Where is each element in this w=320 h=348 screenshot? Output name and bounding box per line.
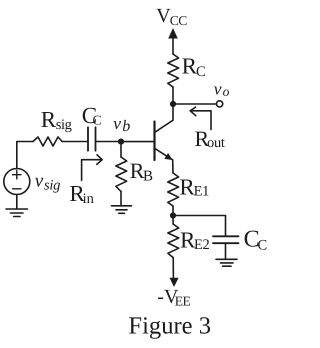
label RE1 — [179, 174, 209, 199]
svg-text:C: C — [196, 64, 206, 80]
svg-text:v: v — [214, 78, 222, 98]
svg-text:Figure 3: Figure 3 — [128, 313, 211, 340]
label vo — [214, 78, 230, 99]
transistor Q1 base bar — [153, 122, 155, 161]
svg-text:b: b — [122, 118, 130, 135]
wire vb to RB — [120, 142, 122, 158]
source vsig circle — [4, 169, 30, 195]
node vb junction — [118, 139, 124, 145]
node collector junction — [170, 101, 176, 107]
label CC coupling — [82, 103, 102, 128]
transistor Q1 collector lead — [155, 104, 173, 132]
wire RE1 to emitter node — [172, 206, 174, 216]
resistor RC — [168, 54, 179, 87]
svg-text:out: out — [207, 135, 225, 151]
ground RB — [112, 206, 132, 214]
resistor RB — [116, 157, 127, 192]
caption Figure 3 — [128, 313, 211, 340]
wire base — [121, 141, 154, 143]
svg-text:E1: E1 — [194, 184, 210, 200]
wire node to RE2 — [172, 216, 174, 225]
svg-text:v: v — [113, 113, 121, 133]
resistor RE2 — [168, 224, 179, 258]
transistor Q1 emitter arrowhead — [164, 153, 172, 160]
svg-text:EE: EE — [175, 293, 191, 308]
wire collector node to vo terminal — [173, 103, 216, 105]
label RB — [130, 158, 153, 185]
resistor RE1 — [168, 173, 179, 206]
wire node to bypass cap — [173, 216, 226, 237]
transistor Q1 emitter lead — [155, 148, 173, 173]
label vsig — [35, 170, 60, 193]
label vb — [113, 113, 130, 135]
wire RC to collector node — [172, 87, 174, 104]
source minus sign — [13, 188, 21, 190]
wire source to ground — [16, 195, 18, 210]
source plus sign — [13, 171, 21, 179]
node vo open terminal — [217, 101, 223, 107]
label RC — [182, 53, 206, 80]
svg-text:E2: E2 — [194, 237, 210, 253]
svg-text:CC: CC — [170, 13, 188, 28]
wire VCC arrow up — [168, 28, 178, 54]
resistor Rsig — [33, 137, 62, 146]
capacitor CC coupling plates — [88, 127, 96, 150]
svg-text:v: v — [35, 170, 44, 191]
label -VEE — [157, 286, 190, 308]
capacitor CC bypass plates — [213, 236, 239, 243]
ground vsig — [6, 209, 28, 217]
svg-text:sig: sig — [56, 117, 72, 133]
svg-text:C: C — [258, 238, 268, 254]
svg-text:in: in — [83, 191, 95, 207]
arrow Rin pointer — [82, 155, 103, 181]
label Rout — [195, 126, 225, 151]
wire source to rsig — [17, 142, 33, 169]
wire RB to ground — [120, 192, 122, 206]
ground bypass — [216, 259, 237, 266]
label Rin — [69, 181, 94, 207]
svg-text:sig: sig — [44, 177, 60, 193]
label RE2 — [180, 227, 210, 252]
svg-text:o: o — [223, 84, 230, 99]
wire RE2 to VEE arrow — [172, 258, 174, 279]
svg-text:B: B — [143, 169, 153, 185]
label CC bypass — [244, 227, 268, 254]
arrow Rout pointer — [190, 107, 211, 129]
wire rsig to cap — [62, 141, 88, 143]
svg-text:R: R — [41, 107, 57, 132]
wire cap to vb — [96, 141, 122, 143]
wire cap to ground — [225, 243, 227, 259]
svg-text:C: C — [93, 113, 102, 128]
arrow VEE down — [170, 278, 179, 287]
label Rsig — [41, 107, 72, 133]
node emitter junction — [170, 212, 176, 218]
node VCC label — [156, 5, 187, 28]
